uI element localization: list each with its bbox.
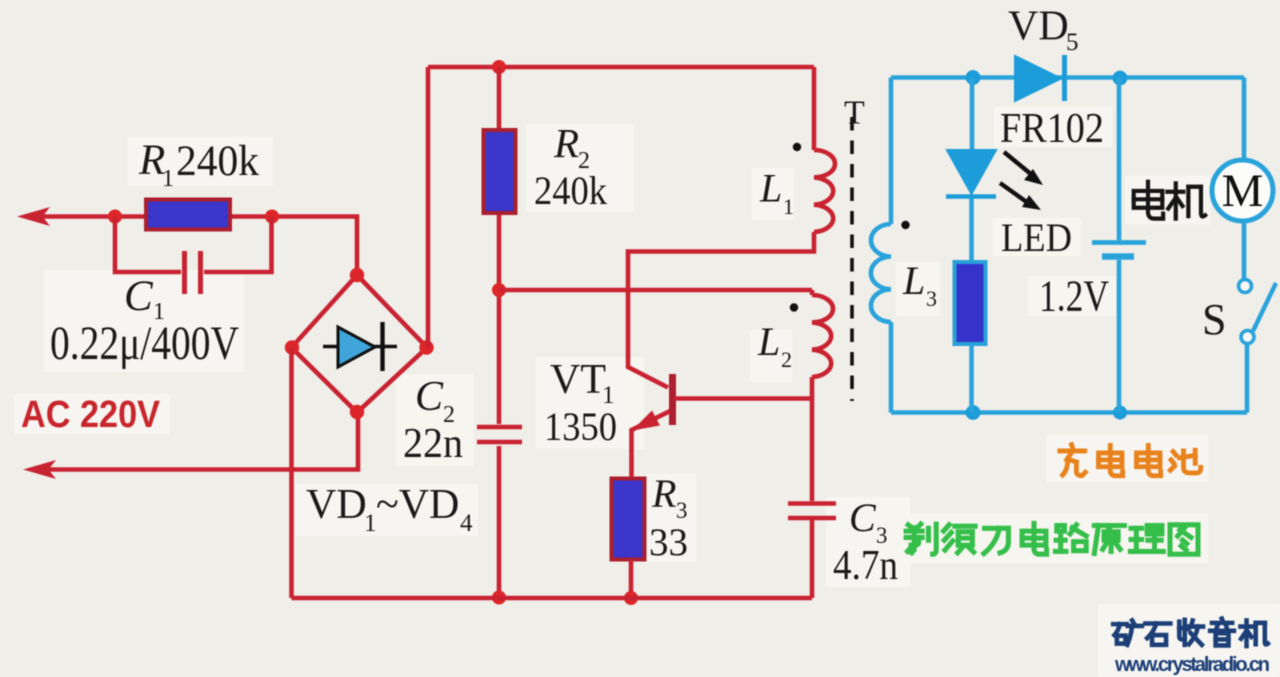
node: R1 left junction xyxy=(108,210,122,224)
svg-text:4: 4 xyxy=(460,510,473,537)
battery 1.2V xyxy=(1092,78,1146,413)
transformer T core dashed line xyxy=(850,117,854,401)
svg-text:1: 1 xyxy=(364,510,377,537)
label L3 xyxy=(902,258,937,311)
svg-text:4.7n: 4.7n xyxy=(833,543,898,589)
svg-text:C: C xyxy=(124,273,154,320)
svg-text:C: C xyxy=(849,495,877,540)
arrow: AC input bottom xyxy=(23,460,56,479)
wire: R3 to bottom rail xyxy=(629,560,634,599)
wire: R2 branch vertical xyxy=(497,67,502,598)
transistor VT1 xyxy=(632,374,813,478)
wire: C1 parallel loop xyxy=(115,217,272,273)
resistor R3 xyxy=(612,479,645,560)
label C2 22n xyxy=(403,374,463,467)
node: L1 phase dot xyxy=(793,143,801,151)
motor M xyxy=(1212,160,1273,221)
svg-text:1.2V: 1.2V xyxy=(1039,272,1109,321)
svg-text:L: L xyxy=(902,258,925,303)
node: blue bottom junction FR102 branch xyxy=(966,405,981,420)
wire: L1 bottom to collector xyxy=(628,232,814,388)
resistor R2 xyxy=(484,130,516,213)
label 剃须刀电路原理图 shaver circuit schematic (hand-drawn CJK, green) xyxy=(906,523,1198,554)
svg-text:AC 220V: AC 220V xyxy=(21,394,161,436)
svg-text:22n: 22n xyxy=(403,421,463,467)
wire: C3 vertical xyxy=(810,399,815,599)
svg-text:C: C xyxy=(415,374,444,420)
capacitor C1 xyxy=(185,251,201,294)
node: R2 bottom junction xyxy=(492,283,506,297)
svg-text:L: L xyxy=(759,166,782,211)
node: C2 bottom rail junction xyxy=(492,591,506,605)
wire: R2 junction to L2 top xyxy=(499,288,812,293)
label R3 33 xyxy=(649,471,688,564)
arrow: LED light ray 1 xyxy=(1004,152,1043,185)
inductor L2 xyxy=(812,290,833,399)
label L2 xyxy=(757,319,792,372)
wire: bridge left corner to bottom rail xyxy=(289,348,294,599)
label 充电电池 charging battery (hand-drawn CJK, orange) xyxy=(1060,445,1201,476)
node: blue top junction FR102 branch xyxy=(966,70,981,85)
node: top rail R2 junction xyxy=(492,60,506,74)
label VD1~VD4 xyxy=(306,482,473,537)
switch S xyxy=(1239,280,1277,344)
svg-text:1: 1 xyxy=(162,166,174,192)
label VT1 1350 xyxy=(544,357,617,449)
svg-text:240k: 240k xyxy=(176,138,259,185)
node: bridge bottom xyxy=(350,405,364,419)
arrow: LED light ray 2 xyxy=(1000,183,1041,210)
label C1 xyxy=(124,273,165,325)
node: bridge top xyxy=(350,268,364,282)
wire: bottom rail xyxy=(292,596,813,601)
node: bridge left xyxy=(285,340,299,354)
svg-text:L: L xyxy=(757,319,780,364)
svg-text:S: S xyxy=(1202,295,1226,344)
svg-text:T: T xyxy=(844,95,865,132)
svg-text:33: 33 xyxy=(649,521,688,564)
wire: top AC line with left arrow xyxy=(40,217,357,276)
diode symbol inside bridge xyxy=(323,322,397,371)
svg-text:FR102: FR102 xyxy=(1000,106,1104,152)
svg-text:3: 3 xyxy=(926,286,937,311)
svg-text:M: M xyxy=(1222,165,1264,217)
resistor R1 xyxy=(146,200,230,230)
svg-text:1350: 1350 xyxy=(544,404,617,449)
label R2 240k xyxy=(534,120,607,213)
svg-text:0.22μ/400V: 0.22μ/400V xyxy=(50,317,239,370)
capacitor C3 xyxy=(788,504,836,519)
node: L3 phase dot xyxy=(901,221,909,229)
svg-text:R: R xyxy=(553,120,579,166)
wire: bridge right corner to top rail xyxy=(426,67,431,348)
svg-text:1: 1 xyxy=(783,194,794,219)
watermark 矿石收音机 (hand-drawn CJK, navy) xyxy=(1113,619,1268,646)
label L1 xyxy=(759,166,794,220)
arrow: AC input top xyxy=(17,207,50,226)
svg-text:2: 2 xyxy=(781,347,792,372)
resistor: blue branch resistor xyxy=(955,262,986,344)
inductor L1 xyxy=(814,67,835,232)
svg-text:VT: VT xyxy=(550,357,606,403)
node: R3 bottom junction xyxy=(624,591,638,605)
label VD5 xyxy=(1008,4,1079,57)
diode FR102 LED symbol xyxy=(946,150,996,197)
wire: top rail xyxy=(428,65,814,70)
svg-text:5: 5 xyxy=(1066,29,1079,56)
svg-text:www.crystalradio.cn: www.crystalradio.cn xyxy=(1114,654,1270,676)
wire: bottom AC line with left arrow xyxy=(46,412,358,470)
svg-text:R: R xyxy=(651,471,676,516)
wire: FR102 LED branch xyxy=(969,78,974,413)
svg-text:VD: VD xyxy=(1008,4,1069,50)
diode VD5 xyxy=(1015,55,1065,101)
node: bridge right xyxy=(419,340,433,354)
wire: blue circuit outer loop xyxy=(891,78,1247,413)
node: L2 phase dot xyxy=(790,303,798,311)
node: blue top junction battery branch xyxy=(1113,71,1128,86)
bridge rectifier VD1~VD4 diamond xyxy=(292,275,428,413)
label R1 240k xyxy=(138,137,259,192)
svg-text:LED: LED xyxy=(1001,215,1072,260)
svg-text:VD: VD xyxy=(306,482,367,528)
node: R1 right junction xyxy=(265,210,279,224)
inductor L3 xyxy=(871,224,891,322)
svg-text:~VD: ~VD xyxy=(376,482,459,528)
label C3 4.7n xyxy=(833,495,898,589)
capacitor C2 xyxy=(477,427,522,442)
svg-text:3: 3 xyxy=(676,498,688,523)
svg-text:240k: 240k xyxy=(534,168,607,213)
node: blue bottom junction battery branch xyxy=(1113,406,1127,420)
label 电机 motor (hand-drawn CJK) xyxy=(1134,182,1205,219)
